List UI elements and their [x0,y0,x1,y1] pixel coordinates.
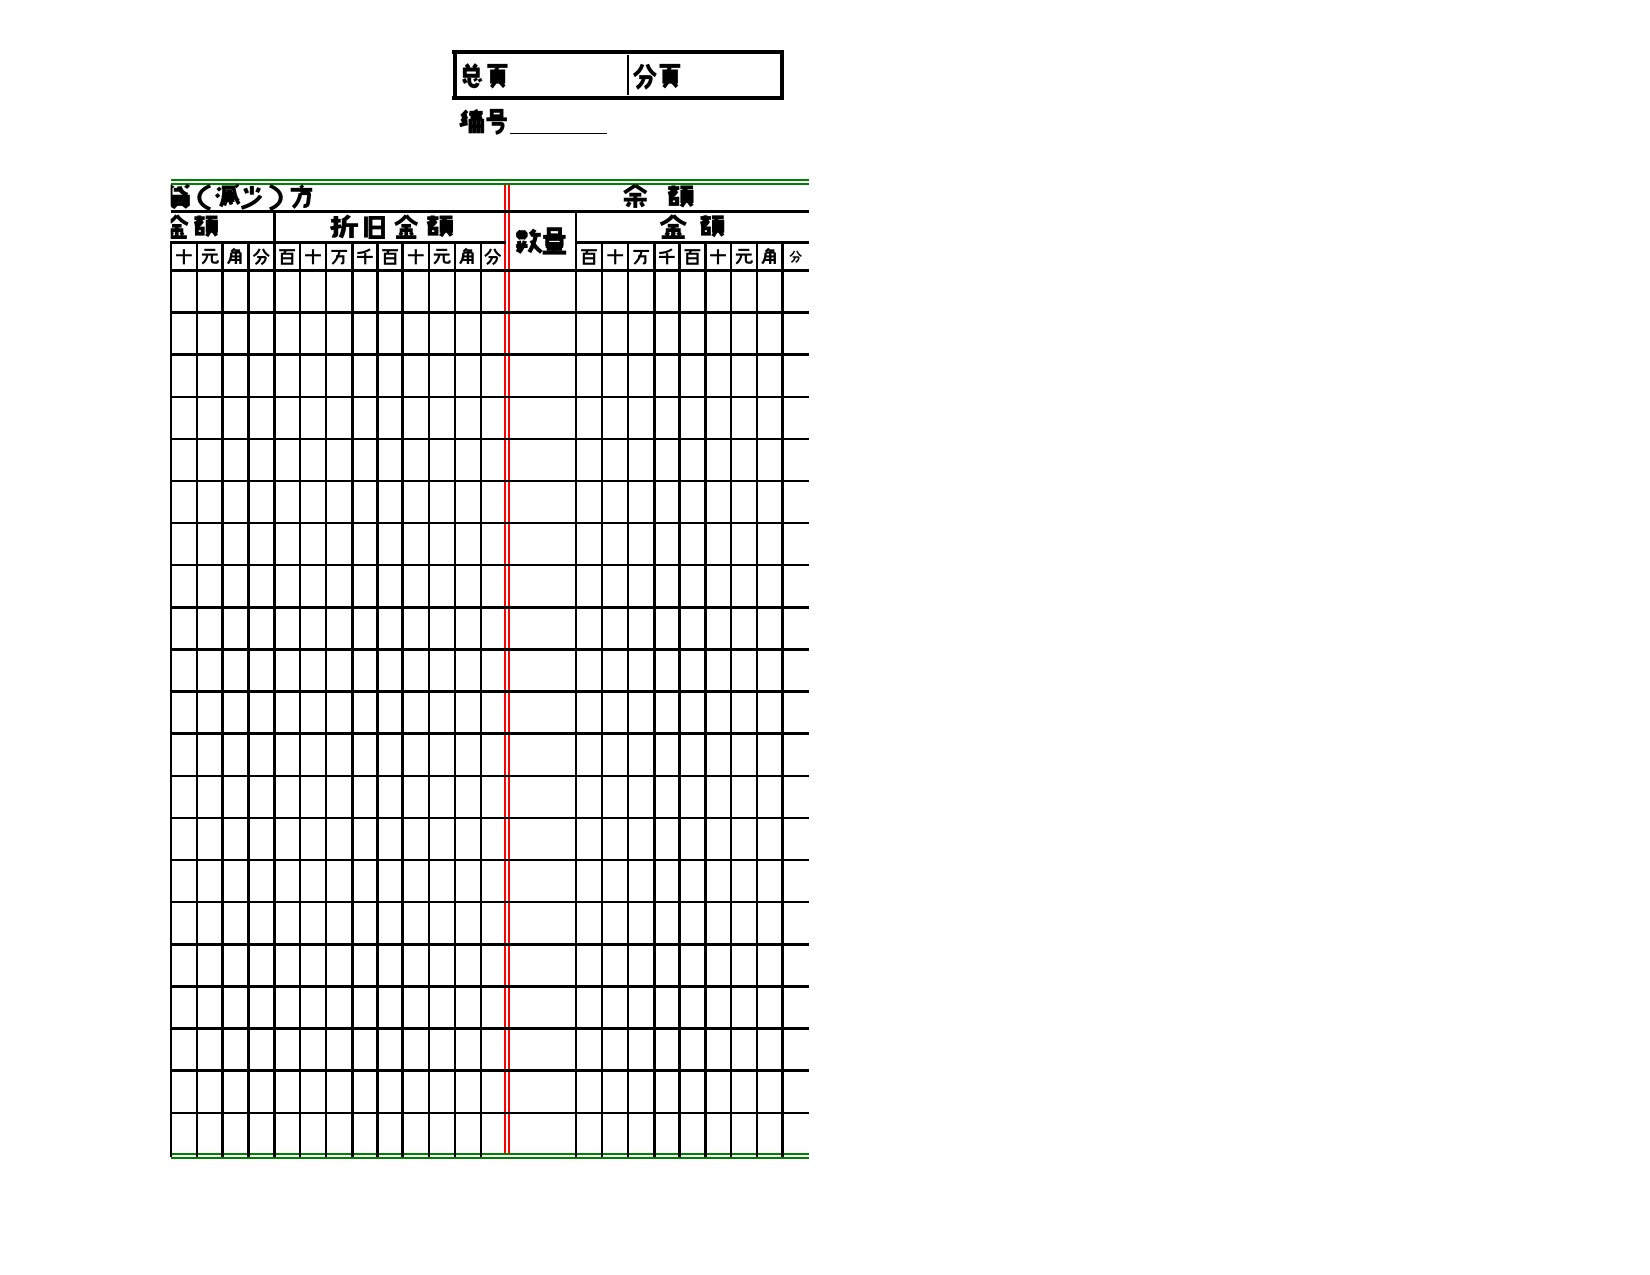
grid vline left x=481 [480,241,482,1157]
grid vline right x=602 [601,241,603,1157]
body row line 9 [171,648,809,651]
col header bai [382,250,398,263]
col header fen [485,249,501,264]
text hao(号) [486,111,507,133]
blank underline after 编号 [510,133,607,134]
body row line 18 [171,1027,809,1030]
grid vline left x=223 [221,241,224,1157]
text liang(量) [543,229,567,252]
red page-break line 1 [504,185,506,1153]
body row line 19 [171,1069,809,1072]
text zhe(折) [331,215,359,238]
grid vline right x=654 [653,241,656,1157]
header box outer border top [452,50,784,54]
body row line 7 [171,564,809,566]
col header wan [331,251,347,264]
col header shi2 [305,249,321,264]
col header jiao [460,249,473,264]
grid vline right x=705 [704,241,707,1157]
col header bai [581,250,597,263]
body row line 3 [171,396,809,398]
green boundary top line 1 [171,179,809,181]
col header yuan [736,250,752,264]
row line under digit header [171,269,809,272]
text ( [199,186,210,210]
grid vline left x=377 [376,241,379,1157]
grid vline left x=403 [401,241,404,1157]
row line under jin-e/zhejiu left [171,241,506,244]
text jiu(旧) [366,216,383,237]
grid vline left x=352 [351,241,354,1157]
grid vline left x=197 [196,241,198,1157]
body row line 4 [171,438,809,440]
col header jiao [762,249,775,264]
grid vline right x=783 [781,241,784,1157]
col header shi2 [710,249,726,264]
body row line 8 [171,606,809,609]
col header fen small [790,251,802,262]
text jian(减) [216,185,239,207]
col header yuan [434,250,450,264]
body row line 10 [171,690,809,693]
col header shi2 [408,249,424,264]
col header bai [279,250,295,263]
grid vline left x=300 [299,241,301,1157]
text bian(编) [460,110,483,134]
grid vline group boundary x=274 [273,210,276,1157]
grid vline shuliang/bai x=576 [575,210,577,1157]
text jin(金) [395,215,417,237]
grid vline right x=680 [678,241,681,1157]
col header shi2 [607,249,623,264]
col header shi2 [176,249,192,264]
body row line 6 [171,522,809,524]
body row line 11 [171,732,809,735]
body row line 13 [171,817,809,819]
red page-break line 2 [508,185,510,1153]
body row line 2 [171,353,809,356]
green boundary top line 2 [171,183,809,185]
text ye(页) [487,66,507,87]
body row line 1 [171,311,809,314]
col header wan [633,251,649,264]
col header yuan [202,250,218,264]
text e(额) [427,215,452,236]
text shu(数) [516,230,541,253]
text jin(金) [661,215,686,237]
text zong(总) [464,64,481,86]
text jin(金) clipped [166,215,188,237]
text e(额) [700,215,723,236]
body row line 14 [171,859,809,861]
col header bai [684,250,700,263]
grid vline left x=248 [247,241,250,1157]
grid vline left x=455 [454,241,456,1157]
grid vline right x=731 [730,241,732,1157]
body row line 12 [171,775,809,777]
header box divider [627,55,629,95]
row line under jin-e right [576,241,809,244]
col header jiao [228,249,241,264]
body row line 5 [171,480,809,482]
text fen(分) [634,64,656,88]
text ) [270,186,281,210]
body row line 17 [171,985,809,988]
text fang(方) [291,185,313,207]
grid vline right x=628 [627,241,629,1157]
grid vline left x=171 [170,241,172,1157]
grid vline right x=757 [756,241,758,1157]
body row line 16 [171,943,809,946]
grid vline left x=326 [325,241,327,1157]
header box outer border left [453,50,457,100]
text e(额) [668,185,693,206]
text e(额) [194,215,217,236]
text dai(贷) clipped [168,185,189,208]
row line under dai/yu-e header [171,210,809,213]
header box outer border bottom [452,96,784,100]
col header qian [357,249,373,264]
green boundary bottom line 1 [171,1153,809,1155]
grid vline left x=429 [428,241,430,1157]
text shao(少) [241,186,260,208]
body row line 15 [171,901,809,903]
green boundary bottom line 2 [171,1157,809,1159]
col header fen [253,249,269,264]
header box outer border right [780,50,784,100]
text yu(余) [624,185,647,208]
text ye(页) [660,66,681,87]
body row line 20 [171,1112,809,1114]
col header qian [659,249,675,264]
